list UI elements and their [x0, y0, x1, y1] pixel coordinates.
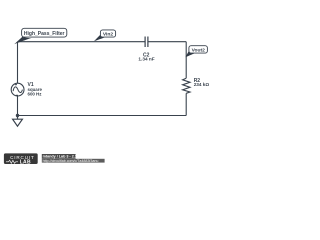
svg-text:mtandy / Lab 3 - 2.1: mtandy / Lab 3 - 2.1: [43, 155, 77, 159]
wire top horizontal left segment: [18, 41, 146, 43]
flag pointer Vin2: [94, 35, 105, 42]
node flag Vout2: [189, 46, 208, 54]
watermark caption line 2: [42, 159, 105, 163]
wire right vertical (bottom): [185, 93, 187, 115]
flag pointer High_Pass_Filter: [14, 37, 31, 44]
voltage source V1: [11, 83, 24, 96]
svg-text:High_Pass_Filter: High_Pass_Filter: [24, 31, 65, 37]
wire bottom horizontal: [18, 115, 187, 117]
svg-text:234 kΩ: 234 kΩ: [194, 82, 210, 87]
wire left vertical (top): [17, 42, 19, 83]
watermark CircuitLab logo badge: [4, 153, 38, 165]
wire top horizontal right segment: [148, 41, 186, 43]
svg-text:http://circuitlab.com/c/7a4883: http://circuitlab.com/c/7a4883f3anu: [43, 159, 99, 163]
junction node at V1 bottom / ground: [16, 114, 19, 117]
node flag Vin2: [100, 30, 115, 38]
svg-text:600 Hz: 600 Hz: [28, 92, 43, 97]
watermark caption line 1: [42, 154, 77, 159]
ground: [13, 116, 23, 127]
svg-text:Vout2: Vout2: [192, 47, 206, 53]
node flag High_Pass_Filter: [22, 28, 67, 37]
svg-text:1.34 nF: 1.34 nF: [138, 57, 154, 62]
svg-text:LAB: LAB: [20, 159, 31, 165]
wire right vertical (top): [185, 42, 187, 78]
svg-text:Vin2: Vin2: [103, 32, 114, 38]
wire left vertical (below source): [17, 96, 19, 116]
resistor R2: [183, 78, 190, 93]
capacitor C2: [145, 37, 148, 48]
flag pointer Vout2: [185, 51, 195, 58]
